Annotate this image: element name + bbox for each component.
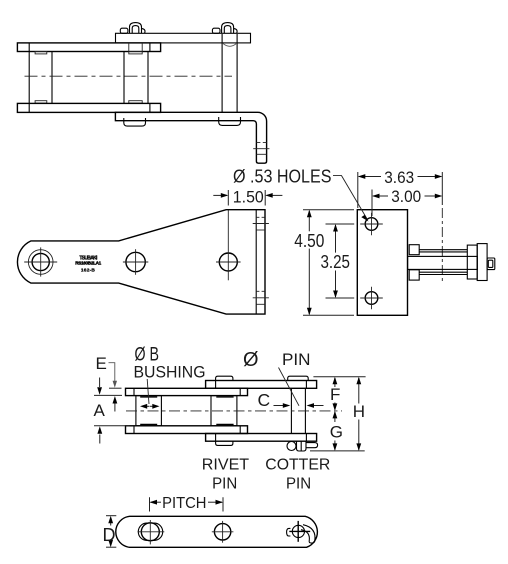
dim 3.25 extension lines bbox=[326, 223, 355, 225]
near plate separator right bbox=[149, 103, 151, 112]
flange hole top: edges and centerline bbox=[256, 216, 265, 218]
svg-text:G: G bbox=[330, 422, 343, 441]
roller outer circle bbox=[28, 250, 53, 275]
outer link near plate bbox=[206, 434, 317, 442]
flange plate rectangle bbox=[357, 210, 407, 316]
svg-text:PITCH: PITCH bbox=[162, 495, 206, 512]
collar 1 bbox=[467, 245, 477, 279]
far side plate bar bbox=[17, 43, 160, 52]
PIN leader bbox=[279, 368, 300, 406]
svg-text:4.50: 4.50 bbox=[294, 231, 324, 251]
right pin hidden end arc under far bar bbox=[223, 43, 237, 46]
svg-text:3.00: 3.00 bbox=[391, 187, 421, 206]
A lower arrow (up) bbox=[99, 435, 101, 444]
middle hole bbox=[214, 524, 230, 540]
leg hole hidden edge (dashed) bbox=[256, 142, 266, 144]
svg-text:COTTER: COTTER bbox=[265, 456, 330, 473]
far plate separator right bbox=[149, 43, 151, 52]
washer top bbox=[409, 245, 419, 255]
attachment plate far-side flat bar (top view) bbox=[116, 33, 251, 43]
left pin edges through far plate bbox=[128, 43, 130, 52]
svg-text:3.63: 3.63 bbox=[384, 168, 414, 187]
collar 2 bbox=[477, 244, 487, 281]
inner link far plate bbox=[126, 388, 248, 395]
left roller circle bbox=[141, 523, 159, 541]
plate outline bbox=[116, 516, 318, 547]
end piece bbox=[487, 258, 495, 270]
svg-text:A: A bbox=[94, 401, 106, 420]
end detail bbox=[488, 260, 493, 267]
BUSHING leader bbox=[147, 379, 149, 404]
leg hole centerline bbox=[253, 148, 269, 150]
E lower arrow (up) bbox=[114, 404, 116, 412]
crosshair attachment hole bbox=[216, 261, 241, 263]
dim PITCH bbox=[149, 497, 151, 511]
H dimension bbox=[358, 378, 360, 404]
pin head bump right bbox=[288, 376, 309, 380]
cotter pin head (left pin, top view) bbox=[120, 23, 145, 34]
sleeve lines top bbox=[419, 249, 467, 251]
svg-text:RIVET: RIVET bbox=[202, 456, 250, 473]
svg-text:162-B: 162-B bbox=[81, 268, 96, 274]
pin centerline vertical (dashed) bbox=[441, 208, 443, 284]
svg-text:BUSHING: BUSHING bbox=[134, 362, 206, 381]
attachment hole circle bbox=[219, 253, 237, 271]
pin assembly bbox=[408, 244, 495, 281]
dim 3.63 bbox=[358, 172, 443, 208]
svg-text:E: E bbox=[96, 354, 107, 373]
dim 1.50 bbox=[213, 190, 282, 206]
dim D bbox=[106, 515, 116, 517]
right pin lower cap bbox=[219, 117, 241, 125]
svg-text:1.50: 1.50 bbox=[233, 187, 264, 206]
pin body bbox=[290, 388, 292, 433]
F dimension bbox=[334, 378, 336, 387]
near side plate bar bbox=[17, 103, 160, 112]
cotter end view bbox=[292, 525, 304, 537]
hole top bbox=[365, 218, 378, 231]
flange bend line bbox=[255, 210, 257, 314]
E leader bbox=[109, 363, 115, 381]
roller left (top view) bbox=[28, 52, 30, 104]
dim 3.00 bbox=[372, 190, 441, 217]
cotter pin head (right pin, top view) bbox=[212, 23, 237, 34]
svg-text:PIN: PIN bbox=[212, 476, 237, 493]
hole bottom bbox=[365, 292, 378, 305]
inner link near plate bbox=[126, 426, 248, 434]
svg-text:PIN: PIN bbox=[286, 476, 311, 493]
G dimension bbox=[334, 412, 336, 422]
cotter bent leg hook bbox=[303, 525, 315, 542]
dim 3.25 bbox=[335, 225, 337, 253]
centerline (top view) bbox=[25, 75, 233, 77]
right pin body (top view) bbox=[221, 34, 223, 112]
F/G/H extension lines bbox=[313, 376, 365, 378]
bushing inner circle bbox=[32, 253, 49, 270]
bushing lip far-left bbox=[35, 52, 47, 54]
pin shaft bbox=[408, 256, 478, 269]
outer link far plate bbox=[206, 381, 317, 389]
svg-text:Ø: Ø bbox=[243, 349, 259, 371]
left pin lower cap bbox=[124, 118, 146, 126]
A extension line lower bbox=[94, 425, 130, 427]
bushing lip near-right bbox=[129, 101, 142, 103]
roller right (top view) bbox=[123, 52, 125, 104]
label HOLES leader bbox=[333, 176, 367, 219]
sleeve lines bottom bbox=[419, 271, 467, 273]
A upper arrow (down) bbox=[99, 378, 101, 388]
svg-text:D: D bbox=[103, 525, 116, 545]
rivet pin bottom bump bbox=[216, 441, 233, 445]
svg-text:C: C bbox=[258, 390, 271, 410]
link plate outline with triangular attachment bbox=[17, 210, 265, 314]
left barrel (bushing) bbox=[138, 523, 162, 540]
attachment plate near-side bar with bent leg (top view) bbox=[115, 112, 266, 163]
dia B arrows inside bushing bbox=[145, 405, 150, 407]
near plate separator left bbox=[28, 103, 30, 112]
bushing circle mid bbox=[126, 252, 145, 271]
bushing left bbox=[136, 396, 162, 426]
svg-text:F: F bbox=[330, 385, 340, 404]
leg hole lower edge bbox=[256, 153, 266, 155]
far plate separator left bbox=[28, 43, 30, 52]
svg-text:PIN: PIN bbox=[282, 350, 311, 369]
pin head bump left bbox=[216, 376, 233, 380]
dim 4.50 extension lines bbox=[303, 209, 354, 211]
washer bottom bbox=[409, 270, 419, 280]
flange hole bottom: edges and centerline bbox=[256, 290, 265, 292]
centerline chain detail bbox=[126, 410, 342, 412]
bushing right bbox=[211, 396, 237, 426]
svg-text:Ø .53 HOLES: Ø .53 HOLES bbox=[233, 167, 332, 187]
bushing lip far-right bbox=[129, 52, 142, 54]
crosshair hub bbox=[24, 261, 57, 263]
crosshair mid bbox=[123, 261, 148, 263]
svg-text:3.25: 3.25 bbox=[320, 252, 350, 272]
bushing lip near-left bbox=[35, 101, 47, 103]
dim 4.50 bbox=[308, 211, 310, 232]
E/A extension lines bbox=[109, 387, 122, 389]
cotter pin (drawn below right pin) bbox=[287, 441, 318, 451]
svg-text:RS160B2LA1: RS160B2LA1 bbox=[75, 261, 101, 266]
svg-text:H: H bbox=[353, 402, 365, 421]
